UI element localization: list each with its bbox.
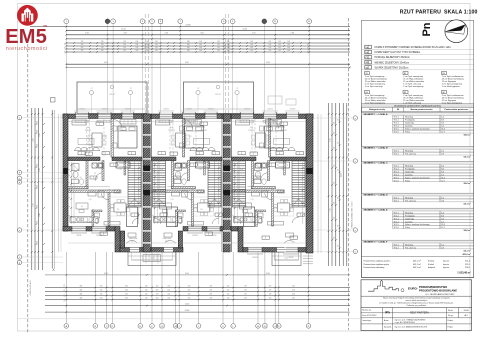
porch 2 outline [272, 252, 301, 266]
stairs S3R [292, 161, 305, 207]
window [92, 226, 106, 231]
terrace circle markers [89, 90, 93, 94]
sofa [270, 147, 276, 150]
svg-text:EM5: EM5 [5, 26, 47, 48]
window [183, 114, 196, 119]
right panel border [362, 20, 474, 277]
schedule table outer [362, 104, 474, 278]
material column 2.2 [403, 91, 408, 94]
dimension stack bottom [45, 274, 350, 276]
bed [118, 126, 137, 148]
window [205, 114, 217, 119]
sofa [75, 147, 81, 150]
wall entry 1 left [121, 231, 125, 248]
bottom room furniture seg 3 [278, 203, 290, 212]
material column 1.1 [365, 72, 370, 75]
bed [265, 126, 284, 148]
wall outer top [63, 114, 313, 119]
footer table grid [361, 307, 472, 309]
window [241, 114, 254, 119]
radiators under windows [75, 120, 89, 122]
interior walls middle [172, 161, 174, 189]
table [176, 133, 186, 147]
wall outer bottom A [63, 227, 115, 232]
legend row Ka [362, 48, 474, 50]
stairs S3L [233, 161, 246, 207]
party wall 1 [141, 114, 143, 252]
porch center steps [143, 255, 161, 262]
wall outer right [306, 114, 313, 253]
interior dim chain seg 3 [234, 162, 236, 224]
bottom small rooms seg 3 [256, 210, 258, 227]
window [98, 114, 111, 119]
legend row P1 [362, 59, 474, 61]
wall step 2 [238, 227, 243, 253]
window [72, 226, 86, 231]
svg-text:nieruchomości: nieruchomości [6, 46, 48, 52]
wardrobe [72, 120, 86, 125]
grid axis extension lines top [66, 24, 309, 114]
segment 1 interior [111, 119, 113, 158]
window [287, 114, 299, 119]
extra door arcs lower zone [132, 218, 139, 224]
door arc [113, 120, 122, 129]
svg-text:EM: EM [44, 25, 47, 27]
bottom small rooms seg 1 [92, 210, 94, 227]
table section SEGMENT 3 — LOKAL E [362, 208, 474, 211]
interior walls middle [252, 161, 254, 189]
bed [185, 126, 204, 148]
north compass circle [445, 20, 468, 43]
window [160, 114, 173, 119]
table [92, 133, 102, 147]
material column 1.2 [403, 72, 408, 75]
logo building icon [22, 8, 34, 22]
legend row Kw [362, 54, 474, 56]
dimension stack left [31, 108, 33, 270]
sofa [190, 147, 196, 150]
bath fixtures [175, 164, 182, 171]
wall interior horizontal main [68, 157, 100, 161]
wall outer bottom B [183, 227, 238, 232]
window [284, 247, 298, 252]
chimney blocks party wall 2 [223, 166, 230, 172]
segment 3 interior [269, 119, 271, 158]
interior walls middle [86, 161, 88, 189]
wall outer bottom C [243, 248, 306, 253]
grid axis extension lines bottom [66, 252, 308, 323]
bath fixtures [72, 164, 79, 171]
window [207, 226, 220, 231]
wall outer left [63, 114, 68, 231]
table section SEGMENT 2 — LOKAL D [362, 193, 474, 196]
stairs S2R [208, 161, 221, 207]
party wall white notches [143, 122, 151, 124]
footer block border [361, 280, 472, 331]
table summary [362, 255, 474, 257]
window [264, 114, 277, 119]
interior dim chain seg 2 [154, 162, 156, 224]
window [248, 247, 262, 252]
grid bubbles left [17, 115, 21, 119]
beam dashed lines top rooms [86, 119, 88, 157]
grid bubbles bottom [64, 324, 69, 329]
wall entry 1 right [178, 231, 182, 248]
legend row S1 [362, 69, 474, 71]
bath fixtures [255, 164, 262, 171]
kitchen counter [70, 217, 98, 223]
segment 2 interior [183, 119, 185, 158]
left dim arrow bottom [52, 268, 55, 271]
bottom room furniture seg 2 [198, 203, 210, 212]
terrace rear 1 [77, 82, 147, 114]
axis dash party walls top [144, 14, 146, 114]
middle zone details seg 1 [84, 186, 110, 188]
steps bottom right [303, 255, 313, 257]
party wall 2 [221, 114, 223, 252]
wall interior lower [272, 190, 274, 226]
left small label box [51, 98, 56, 103]
top window sill lines [74, 111, 90, 113]
window [188, 226, 202, 231]
wall entry block 1 bottom [120, 248, 183, 253]
legend row W1 [362, 64, 474, 66]
entry details seg 3 [128, 233, 136, 237]
material column 2.1 [365, 91, 370, 94]
fold line bottom [18, 318, 362, 320]
middle zone details seg 2 [168, 186, 194, 188]
property line right (dashed) [347, 18, 349, 330]
grid bubbles right [353, 116, 357, 120]
table column headers [362, 106, 474, 108]
chimney blocks party wall 1 [143, 166, 150, 172]
north needle outline [445, 25, 466, 35]
table [256, 133, 266, 147]
kitchen counter [234, 217, 262, 223]
bottom window sill lines [71, 231, 87, 233]
property line left (dashed) [27, 44, 29, 334]
dimension stack right [328, 103, 330, 266]
wall step 1 [115, 227, 120, 253]
table section SEGMENT 1 — LOKAL A [362, 113, 474, 116]
stairs S1 [128, 161, 141, 207]
wc small rooms bottom of entry [127, 207, 138, 227]
kitchen counter [154, 217, 182, 223]
wall interior lower [192, 190, 194, 226]
window [122, 114, 134, 119]
wardrobe [236, 120, 250, 125]
door arc [270, 120, 279, 129]
wall interior lower [108, 190, 110, 226]
dimension stack top [30, 26, 350, 28]
interior dim chain seg 1 [70, 162, 72, 224]
interior dim lines [58, 114, 60, 252]
porch 1 outline [128, 252, 176, 266]
north needle filled [445, 25, 466, 32]
material column 2.3 [442, 91, 447, 94]
wardrobe [156, 120, 170, 125]
rear small marks segment3 [268, 96, 282, 104]
table title band [362, 104, 474, 107]
table section SEGMENT 2 — LOKAL C [362, 161, 474, 164]
room tag boxes [96, 122, 104, 125]
footer skyline logo [368, 280, 399, 291]
terrace rear 2 [184, 82, 254, 114]
stairs S2L [153, 161, 166, 207]
chimney marks outer walls [63, 168, 68, 174]
middle zone details seg 3 [248, 186, 274, 188]
table section SEGMENT 3 — LOKAL F [362, 240, 474, 243]
logo EM5 circle [17, 5, 38, 26]
grid bubbles top [64, 19, 69, 24]
material column 1.3 [442, 72, 447, 75]
table section SEGMENT 1 — LOKAL B [362, 146, 474, 149]
window [76, 114, 89, 119]
bottom small rooms seg 2 [176, 210, 178, 227]
door arc [184, 120, 193, 129]
bottom room furniture seg 1 [114, 203, 126, 212]
entry doors [130, 248, 139, 252]
